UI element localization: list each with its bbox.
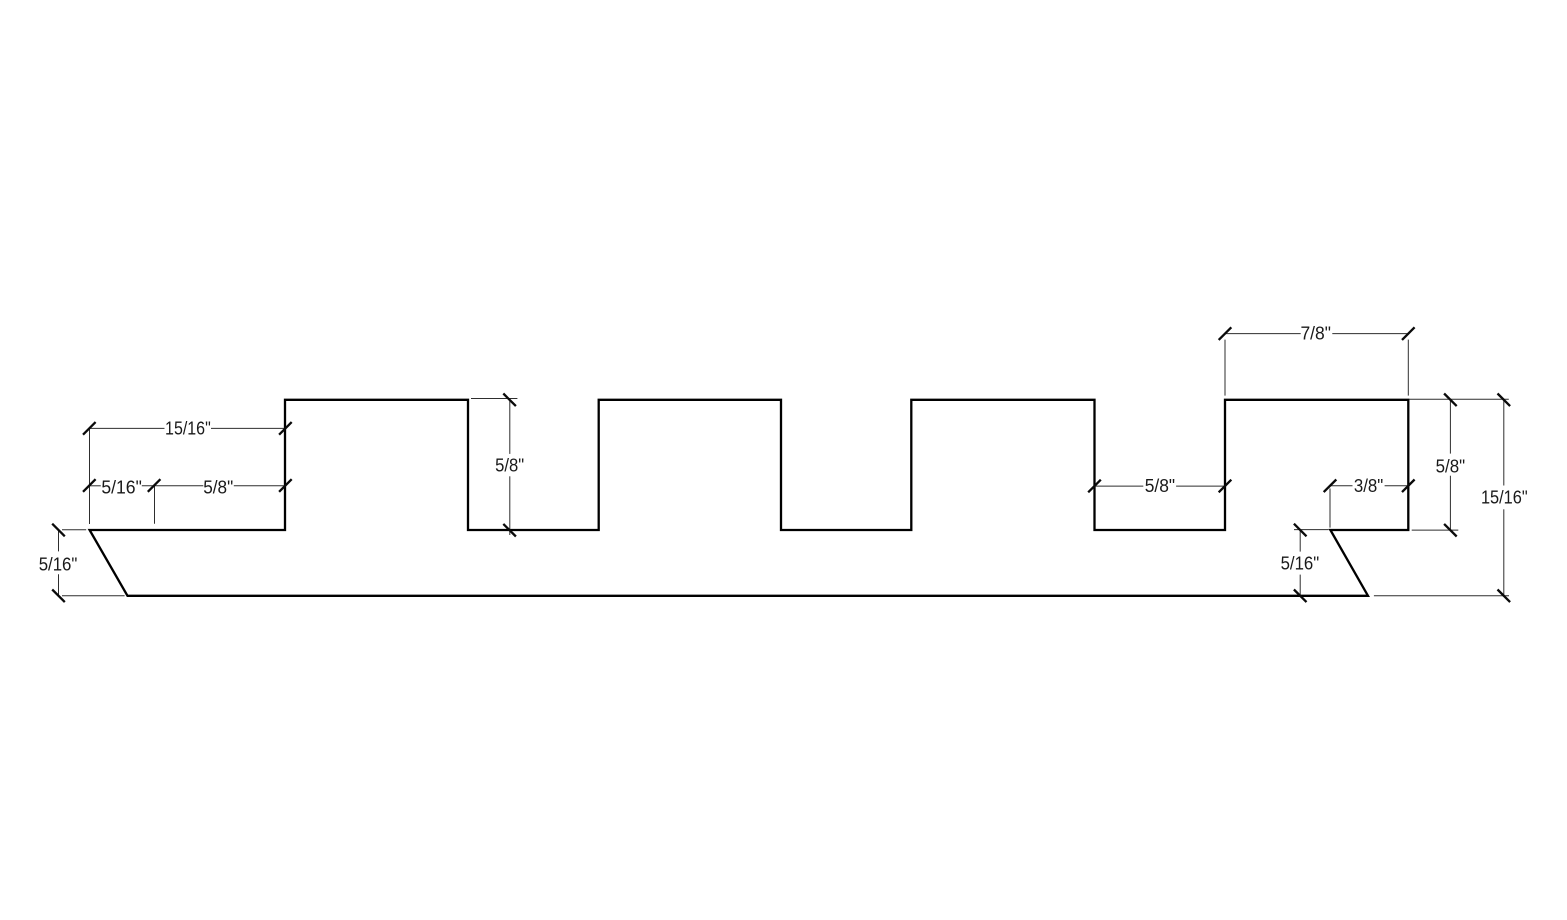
ext vertical at x=154.5 (5/16 / 5/8 split) [154, 486, 156, 524]
ext horizontal top of left 5/16 dim [62, 529, 86, 531]
ext horizontal top right shared (5/8 and 15/16 dims) [1410, 398, 1509, 400]
ticks dim right vertical 5/8" [1444, 394, 1457, 407]
dim line right vertical 5/16" [1299, 530, 1301, 552]
ext horizontal bottom of right 15/16 dim [1374, 595, 1509, 597]
ext vertical left of 7/8 dim [1224, 340, 1226, 396]
ticks dim 7/8" [1219, 327, 1232, 340]
ticks dim 3/8" [1324, 480, 1337, 493]
dim line right vertical 5/8" [1449, 400, 1451, 454]
svg-text:5/8": 5/8" [203, 477, 233, 497]
svg-text:15/16": 15/16" [1481, 487, 1528, 507]
ext vertical left of 3/8 dim [1329, 489, 1331, 528]
ext horizontal top of groove 5/8 vertical dim [471, 398, 517, 400]
profile outline (slat wall board cross-section) [90, 400, 1409, 596]
ticks dim 15/16" top-left [83, 422, 96, 435]
extension lines (thin) [62, 340, 1509, 596]
svg-text:5/16": 5/16" [1281, 554, 1320, 574]
ticks dim groove3 5/8" [1088, 480, 1101, 493]
svg-text:5/8": 5/8" [1145, 476, 1175, 496]
ext horizontal bottom of right 5/8 dim [1412, 529, 1459, 531]
dim line left vertical 5/16" [58, 530, 60, 551]
svg-text:3/8": 3/8" [1354, 476, 1383, 496]
dimension text labels [39, 324, 1528, 575]
ext horizontal top of right 5/16 dim [1294, 529, 1329, 531]
dim line 3/8" [1330, 485, 1353, 487]
svg-text:5/8": 5/8" [1436, 457, 1466, 477]
dim line groove vertical 5/8" [509, 400, 511, 454]
dim line right vertical 15/16" [1503, 400, 1505, 486]
svg-text:15/16": 15/16" [165, 419, 211, 439]
dim line 7/8" top-right [1225, 333, 1301, 335]
ext vertical right of 7/8 dim [1407, 340, 1409, 396]
svg-text:5/8": 5/8" [495, 456, 524, 476]
ticks dim 5/16"+5/8" left [83, 479, 96, 492]
svg-text:7/8": 7/8" [1300, 324, 1331, 344]
dim line groove3 5/8" [1095, 485, 1144, 487]
ticks dim right vertical 5/16" [1294, 524, 1307, 537]
dim line 5/16" + 5/8" left [89, 485, 101, 487]
dim line 15/16" top-left [89, 427, 164, 429]
tick marks (architectural slashes) [52, 327, 1510, 602]
ext vertical at left profile end x=89.3 [89, 428, 91, 524]
svg-text:5/16": 5/16" [101, 477, 142, 497]
ext horizontal bottom of left 5/16 dim [62, 595, 125, 597]
ticks dim groove vertical 5/8" [503, 394, 516, 407]
dimension lines (thin, broken at labels) [59, 334, 1504, 596]
ticks dim right vertical 15/16" [1498, 394, 1511, 407]
svg-text:5/16": 5/16" [39, 554, 78, 574]
ticks dim left vertical 5/16" [52, 524, 65, 537]
